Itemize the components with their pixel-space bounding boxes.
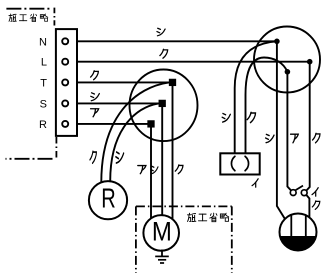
svg-text:R: R bbox=[39, 119, 47, 131]
svg-text:M: M bbox=[152, 216, 172, 246]
svg-text:T: T bbox=[40, 77, 47, 89]
svg-text:L: L bbox=[41, 57, 47, 69]
svg-text:S: S bbox=[40, 98, 47, 110]
svg-text:N: N bbox=[39, 36, 47, 48]
svg-text:R: R bbox=[101, 182, 116, 213]
